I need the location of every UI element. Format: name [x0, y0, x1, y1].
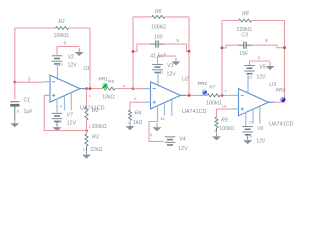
wire (node 3 to U1 inverting input): [15, 81, 44, 83]
capacitor C1: [10, 98, 32, 120]
resistor R6: [151, 9, 166, 30]
wire (V6 to ground): [247, 135, 249, 140]
svg-text:100kΩ: 100kΩ: [219, 126, 234, 132]
svg-text:R1: R1: [59, 19, 66, 25]
label PR1: [99, 77, 109, 83]
node 3 label: [28, 77, 31, 82]
U1 output wire: [86, 88, 103, 90]
ground at V4: [153, 123, 162, 131]
net 7 label: [225, 89, 228, 94]
svg-text:14: 14: [222, 104, 227, 109]
node at C2 right: [188, 50, 191, 53]
wire (R3 to ground): [86, 146, 88, 151]
resistor R4: [129, 110, 143, 126]
net 0 label at R3: [83, 147, 86, 152]
wire (stage 2 loop left vertical): [132, 17, 134, 89]
svg-text:12V: 12V: [256, 74, 266, 80]
wire (stage 1 feedback right vertical): [89, 28, 91, 89]
label UA741CD (U3): [269, 121, 294, 127]
U3 pin 1 stub: [252, 109, 254, 123]
resistor R9: [215, 117, 234, 132]
svg-text:V6: V6: [257, 126, 263, 132]
label UA741CD (U1): [80, 106, 105, 112]
svg-text:C3: C3: [241, 32, 248, 38]
net 4 label: [123, 83, 126, 88]
ground right of V5: [266, 62, 275, 70]
wire (R5 to node 4): [115, 88, 145, 90]
battery V2: [52, 55, 78, 69]
wire (R9 to ground): [216, 128, 218, 132]
resistor R1: [54, 19, 69, 39]
svg-text:UA741CD: UA741CD: [269, 121, 294, 127]
svg-text:PR1: PR1: [99, 77, 109, 83]
net 10 label at V2: [58, 61, 63, 66]
svg-text:22kΩ: 22kΩ: [90, 147, 102, 153]
label R7: [209, 85, 215, 91]
wire (stage 2 loop right vertical): [188, 17, 190, 96]
svg-text:15: 15: [160, 116, 165, 121]
node 7 junction: [221, 94, 224, 97]
ground below V6: [243, 139, 252, 144]
svg-text:PR2: PR2: [198, 81, 208, 87]
net 0 label at R4: [129, 120, 132, 125]
svg-text:15F: 15F: [239, 51, 248, 57]
wire (V7 to ground): [56, 121, 58, 126]
net 0 label at V7: [60, 119, 63, 124]
node 1 label: [89, 93, 92, 98]
svg-text:100kΩ: 100kΩ: [92, 124, 107, 130]
capacitor C3: [239, 32, 252, 57]
svg-text:U2: U2: [182, 77, 189, 83]
U3 output wire: [274, 101, 285, 103]
label PR2: [198, 81, 208, 87]
battery V7: [52, 113, 77, 127]
net 15 label: [160, 116, 165, 121]
ground below V7: [53, 126, 62, 131]
net 0 label at V4: [150, 132, 153, 137]
net 12 label: [248, 74, 253, 79]
net 6 label: [134, 96, 137, 101]
probe PR2: [202, 90, 207, 95]
label PR3: [276, 87, 286, 93]
node 2 junction: [85, 129, 88, 132]
battery V5: [244, 65, 266, 81]
svg-text:100: 100: [154, 35, 163, 41]
U2 pin 4 stub: [157, 105, 159, 117]
U1 pin 1 stub: [64, 96, 66, 111]
net 13 label: [249, 120, 254, 125]
svg-text:12V: 12V: [68, 62, 78, 68]
svg-text:C1: C1: [24, 98, 31, 104]
ground below R9: [212, 133, 221, 141]
net 0 label at V5: [258, 55, 261, 60]
wire (V2 to U1 pin 7): [57, 64, 59, 80]
U2 pin 1 stub: [164, 102, 166, 115]
svg-text:100kΩ: 100kΩ: [206, 100, 221, 106]
wire (stage 1 feedback top rail): [15, 27, 90, 29]
svg-text:V5: V5: [259, 65, 265, 71]
node 4 junction: [132, 87, 135, 90]
op-amp U1: [44, 66, 90, 102]
wire (U3 non-inverting input to R9): [217, 108, 233, 110]
node at C3 right: [283, 46, 286, 49]
svg-text:1kΩ: 1kΩ: [133, 120, 142, 126]
net 8 label: [265, 38, 268, 43]
svg-text:10: 10: [58, 61, 63, 66]
svg-text:100kΩ: 100kΩ: [151, 24, 166, 30]
net 0 label at C1: [17, 108, 20, 113]
svg-text:V3: V3: [167, 63, 173, 69]
svg-text:12V: 12V: [67, 121, 77, 127]
svg-text:R3: R3: [92, 135, 99, 141]
net 14 label: [222, 104, 227, 109]
net 0 label at V3: [164, 51, 167, 56]
wire (stage 2 loop top rail): [133, 16, 189, 18]
capacitor C2: [150, 35, 163, 60]
wire (V2 top rail to ground): [57, 47, 79, 55]
probe PR3: [280, 97, 285, 102]
svg-text:R6: R6: [155, 9, 162, 15]
wire (V3 to U2 pin 7): [157, 73, 159, 87]
node 1 junction (divider): [85, 87, 88, 90]
wire (stage 3 loop top rail): [222, 20, 285, 22]
svg-text:R9: R9: [221, 117, 228, 123]
battery V4: [165, 136, 188, 152]
wire (node 2 rail to U1 non-inverting input): [44, 95, 86, 130]
node 3 junction: [13, 81, 16, 84]
net 0 label at V6: [250, 133, 253, 138]
net 2 label: [89, 124, 92, 129]
wire (stage 3 loop left vertical): [221, 21, 223, 96]
ground below R3: [82, 151, 91, 159]
label R5: [108, 79, 114, 85]
U1 pin 5 stub: [70, 93, 72, 111]
node junction (stage2 fb): [188, 94, 191, 97]
capacitor C2 row wire: [133, 44, 189, 51]
net 0 label at V2: [64, 40, 67, 45]
svg-text:PR3: PR3: [276, 87, 286, 93]
svg-text:12V: 12V: [178, 146, 188, 152]
resistor R3: [85, 134, 103, 153]
battery V6: [242, 126, 266, 144]
net 11 label: [160, 70, 165, 75]
net 5 label: [177, 38, 180, 43]
wire (U2 pin 4 to V4): [149, 117, 164, 142]
label UA741CD (U2): [182, 109, 207, 115]
svg-text:100kΩ: 100kΩ: [54, 33, 69, 39]
wire (stage 1 feedback left vertical): [14, 28, 16, 82]
op-amp U3: [233, 82, 277, 116]
ground right of V3: [172, 58, 181, 66]
probe PR1: [102, 83, 107, 88]
capacitor C3 row wire: [222, 45, 285, 48]
wire (output down to R2): [86, 89, 88, 107]
svg-text:R5: R5: [108, 79, 114, 85]
wire (node 4 to U2 inverting input): [133, 88, 145, 90]
svg-text:10kΩ: 10kΩ: [102, 95, 114, 101]
node 1 junction (feedback): [89, 87, 92, 90]
wire (V3 top rail to ground): [158, 56, 177, 64]
wire (R9 top lead): [216, 109, 218, 117]
svg-text:V4: V4: [179, 136, 185, 142]
svg-text:R4: R4: [135, 110, 142, 116]
wire (V5 top rail to ground): [250, 61, 271, 66]
U1 pin 4 stub: [56, 99, 58, 113]
svg-text:R2: R2: [92, 108, 99, 114]
resistor R2: [85, 107, 107, 130]
node at C2 left: [132, 50, 135, 53]
U3 pin 4 stub: [245, 112, 247, 126]
svg-text:UA741CD: UA741CD: [182, 109, 207, 115]
resistor R7: [206, 94, 221, 106]
resistor R8: [237, 11, 252, 33]
net 0 label at R9: [214, 128, 217, 133]
svg-text:R7: R7: [209, 85, 215, 91]
wire (R2 to R3 junction): [86, 120, 88, 134]
ground below R4: [126, 122, 135, 130]
wire (stage 3 loop right vertical): [284, 21, 286, 103]
svg-text:12V: 12V: [167, 71, 177, 77]
svg-text:1µF: 1µF: [24, 109, 33, 115]
svg-text:U3: U3: [269, 82, 276, 88]
svg-text:V2: V2: [68, 55, 74, 61]
U2 pin 5 stub: [171, 100, 173, 116]
U2 output wire: [186, 94, 207, 96]
svg-text:R8: R8: [242, 11, 249, 17]
node at C3 left: [221, 47, 224, 50]
net 9 label: [60, 103, 63, 108]
battery V3: [152, 63, 176, 77]
ground below C1: [10, 120, 19, 128]
resistor R5: [102, 87, 115, 101]
wire (U2 non-inverting input to R4): [130, 102, 145, 110]
svg-text:12V: 12V: [256, 138, 266, 144]
svg-text:V7: V7: [67, 113, 74, 119]
node junction (stage3 fb): [0, 0, 1, 1]
wire (V5 to U3 pin 7): [247, 74, 249, 93]
svg-text:U1: U1: [83, 66, 90, 72]
U3 pin 5 stub: [259, 106, 261, 123]
ground right of V2: [75, 48, 84, 56]
op-amp U2: [145, 77, 189, 109]
wire (R7 to U3 inverting input): [220, 94, 233, 96]
wire (node 3 down to C1): [14, 82, 16, 99]
